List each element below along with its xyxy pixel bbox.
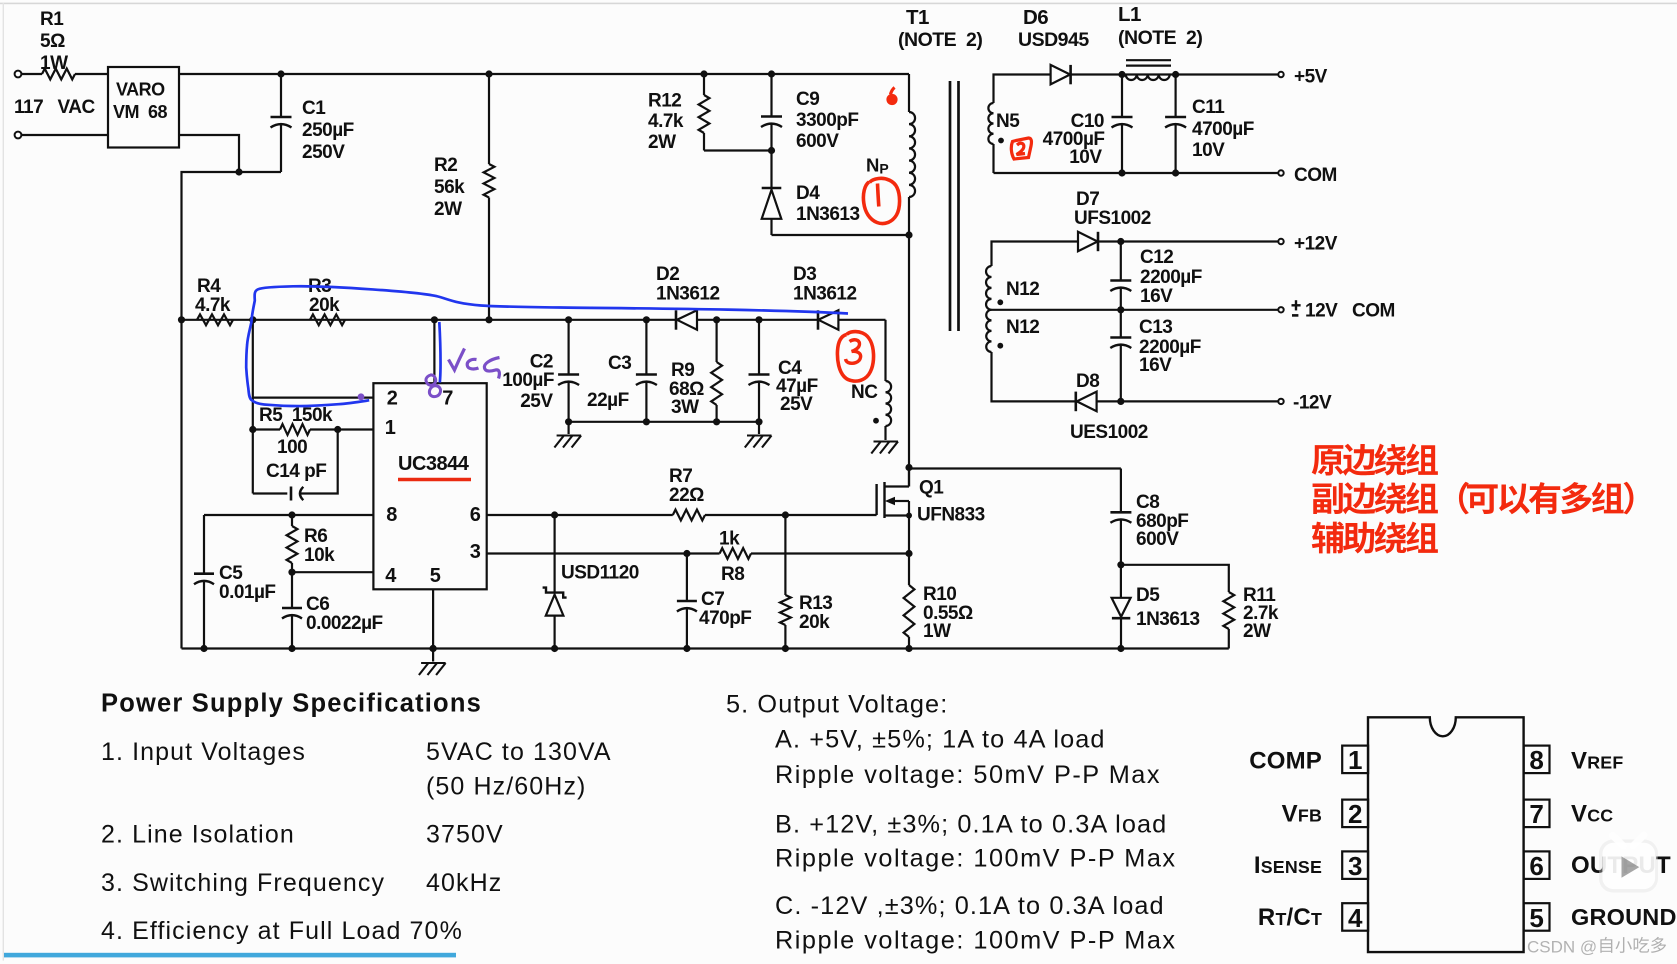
- svg-text:0.0022µF: 0.0022µF: [306, 613, 383, 634]
- svg-text:A. +5V, ±5%; 1A to 4A load: A. +5V, ±5%; 1A to 4A load: [775, 726, 1106, 754]
- svg-text:6: 6: [470, 504, 481, 526]
- svg-text:N12: N12: [1006, 279, 1039, 300]
- svg-text:1: 1: [1348, 745, 1362, 775]
- svg-text:7: 7: [442, 388, 453, 410]
- svg-text:20k: 20k: [309, 295, 340, 316]
- svg-text:2. Line Isolation: 2. Line Isolation: [101, 821, 295, 849]
- svg-text:4700µF: 4700µF: [1192, 119, 1254, 140]
- svg-text:R6: R6: [304, 526, 327, 547]
- svg-text:COMP: COMP: [1249, 748, 1322, 775]
- svg-text:VARO: VARO: [116, 80, 165, 100]
- svg-text:Ripple voltage: 100mV P-P Max: Ripple voltage: 100mV P-P Max: [775, 845, 1177, 873]
- svg-text:16V: 16V: [1140, 286, 1173, 307]
- svg-text:R4: R4: [197, 276, 221, 297]
- svg-text:100µF: 100µF: [502, 370, 554, 391]
- svg-text:5VAC to 130VA: 5VAC to 130VA: [426, 738, 612, 766]
- svg-text:R12: R12: [648, 91, 681, 112]
- svg-text:4.7k: 4.7k: [648, 111, 684, 132]
- svg-text:2W: 2W: [648, 132, 676, 153]
- svg-text:8: 8: [386, 504, 397, 526]
- svg-text:C7: C7: [701, 589, 724, 610]
- svg-text:D3: D3: [793, 264, 816, 285]
- svg-text:117 VAC: 117 VAC: [14, 97, 95, 118]
- svg-text:3W: 3W: [671, 397, 699, 418]
- svg-text:3300pF: 3300pF: [796, 110, 858, 131]
- svg-text:VM 68: VM 68: [113, 102, 168, 122]
- svg-text:C11: C11: [1192, 97, 1225, 118]
- svg-text:C8: C8: [1136, 492, 1159, 513]
- svg-text:22µF: 22µF: [587, 390, 629, 411]
- svg-text:D2: D2: [656, 264, 679, 285]
- svg-text:Power Supply Specifications: Power Supply Specifications: [101, 690, 482, 718]
- svg-text:VCC: VCC: [1571, 801, 1613, 828]
- svg-text:1N3612: 1N3612: [656, 284, 720, 305]
- svg-text:N5: N5: [996, 111, 1020, 132]
- svg-text:2: 2: [1348, 799, 1362, 829]
- svg-text:5Ω: 5Ω: [40, 31, 65, 52]
- svg-text:VREF: VREF: [1571, 748, 1623, 775]
- svg-text:470pF: 470pF: [699, 608, 751, 629]
- svg-text:Q1: Q1: [919, 478, 944, 499]
- svg-text:250µF: 250µF: [302, 120, 354, 141]
- svg-text:C. -12V ,±3%; 0.1A to 0.3A loa: C. -12V ,±3%; 0.1A to 0.3A load: [775, 892, 1165, 920]
- svg-text:USD945: USD945: [1018, 29, 1089, 51]
- svg-text:COM: COM: [1352, 301, 1395, 322]
- svg-text:C3: C3: [608, 353, 631, 374]
- svg-text:5: 5: [430, 565, 441, 587]
- svg-text:COM: COM: [1294, 165, 1337, 186]
- svg-text:N12: N12: [1006, 317, 1039, 338]
- svg-text:+12V: +12V: [1294, 234, 1338, 255]
- svg-text:3: 3: [1348, 851, 1362, 881]
- svg-text:12V: 12V: [1305, 301, 1338, 322]
- svg-text:R13: R13: [799, 593, 832, 614]
- svg-text:25V: 25V: [520, 391, 553, 412]
- svg-text:C5: C5: [219, 563, 243, 584]
- svg-text:1W: 1W: [40, 53, 68, 74]
- svg-text:USD1120: USD1120: [561, 563, 639, 584]
- svg-text:10V: 10V: [1192, 140, 1225, 161]
- svg-text:-12V: -12V: [1293, 393, 1332, 414]
- svg-text:RT/CT: RT/CT: [1258, 904, 1322, 931]
- svg-text:R7: R7: [669, 466, 692, 487]
- svg-text:3. Switching Frequency: 3. Switching Frequency: [101, 869, 385, 897]
- svg-text:(NOTE 2): (NOTE 2): [898, 29, 982, 51]
- svg-text:NC: NC: [851, 382, 878, 403]
- svg-text:3: 3: [470, 541, 481, 563]
- svg-text:2200µF: 2200µF: [1140, 267, 1202, 288]
- svg-text:Ripple voltage: 100mV P-P Max: Ripple voltage: 100mV P-P Max: [775, 927, 1177, 955]
- svg-text:D5: D5: [1136, 585, 1160, 606]
- svg-text:4: 4: [385, 565, 397, 587]
- svg-text:R2: R2: [434, 155, 457, 176]
- svg-text:22Ω: 22Ω: [669, 485, 704, 506]
- svg-text:5. Output Voltage:: 5. Output Voltage:: [726, 691, 948, 719]
- svg-text:2W: 2W: [1243, 621, 1271, 642]
- svg-text:D6: D6: [1023, 6, 1048, 29]
- svg-text:R5 150k: R5 150k: [259, 405, 333, 426]
- svg-text:600V: 600V: [796, 131, 839, 152]
- svg-text:6: 6: [1529, 851, 1543, 881]
- svg-text:R9: R9: [671, 360, 694, 381]
- svg-text:56k: 56k: [434, 177, 465, 198]
- svg-text:0.01µF: 0.01µF: [219, 582, 276, 603]
- svg-text:R10: R10: [923, 584, 956, 605]
- svg-text:C14 pF: C14 pF: [266, 461, 326, 482]
- svg-text:+5V: +5V: [1294, 67, 1328, 88]
- svg-text:C13: C13: [1139, 317, 1172, 338]
- svg-text:1. Input Voltages: 1. Input Voltages: [101, 738, 306, 766]
- svg-text:D8: D8: [1076, 371, 1099, 392]
- svg-text:D4: D4: [796, 183, 820, 204]
- svg-text:4.7k: 4.7k: [195, 295, 231, 316]
- svg-text:(NOTE 2): (NOTE 2): [1118, 27, 1202, 49]
- svg-text:1W: 1W: [923, 621, 951, 642]
- svg-text:ISENSE: ISENSE: [1254, 852, 1322, 879]
- svg-text:10V: 10V: [1069, 147, 1102, 168]
- svg-text:C1: C1: [302, 98, 326, 119]
- svg-text:C9: C9: [796, 89, 819, 110]
- svg-text:UFN833: UFN833: [917, 505, 985, 526]
- svg-text:C12: C12: [1140, 247, 1173, 268]
- svg-text:CSDN @: CSDN @: [1527, 938, 1597, 957]
- svg-text:L1: L1: [1118, 3, 1141, 26]
- svg-text:1N3613: 1N3613: [796, 204, 860, 225]
- svg-text:40kHz: 40kHz: [426, 869, 502, 897]
- svg-text:8: 8: [1529, 745, 1543, 775]
- svg-text:600V: 600V: [1136, 529, 1179, 550]
- svg-text:250V: 250V: [302, 142, 345, 163]
- svg-text:2: 2: [387, 388, 398, 410]
- svg-text:10k: 10k: [304, 545, 335, 566]
- svg-text:D7: D7: [1076, 189, 1099, 210]
- svg-text:20k: 20k: [799, 612, 830, 633]
- svg-text:5: 5: [1529, 903, 1543, 933]
- svg-text:1N3613: 1N3613: [1136, 609, 1200, 630]
- svg-text:100: 100: [277, 437, 307, 458]
- svg-text:B. +12V, ±3%; 0.1A to 0.3A loa: B. +12V, ±3%; 0.1A to 0.3A load: [775, 811, 1167, 839]
- svg-text:3750V: 3750V: [426, 821, 504, 849]
- svg-text:GROUND: GROUND: [1571, 904, 1677, 930]
- svg-text:4. Efficiency at Full Load 70%: 4. Efficiency at Full Load 70%: [101, 917, 463, 945]
- svg-text:1: 1: [385, 417, 396, 439]
- svg-text:UFS1002: UFS1002: [1074, 208, 1151, 229]
- svg-text:2W: 2W: [434, 199, 462, 220]
- svg-text:R8: R8: [721, 564, 744, 585]
- svg-text:Ripple voltage: 50mV P-P Max: Ripple voltage: 50mV P-P Max: [775, 761, 1161, 789]
- svg-text:1N3612: 1N3612: [793, 284, 857, 305]
- svg-text:T1: T1: [906, 6, 929, 29]
- svg-text:UC3844: UC3844: [398, 453, 470, 475]
- svg-text:16V: 16V: [1139, 355, 1172, 376]
- svg-text:25V: 25V: [780, 394, 813, 415]
- svg-text:1k: 1k: [719, 529, 740, 550]
- svg-text:C6: C6: [306, 594, 329, 615]
- svg-text:UES1002: UES1002: [1070, 422, 1148, 443]
- svg-text:R1: R1: [40, 9, 64, 30]
- svg-text:(50 Hz/60Hz): (50 Hz/60Hz): [426, 773, 586, 801]
- svg-text:VFB: VFB: [1282, 801, 1322, 828]
- svg-text:4: 4: [1348, 903, 1363, 933]
- svg-text:7: 7: [1529, 799, 1543, 829]
